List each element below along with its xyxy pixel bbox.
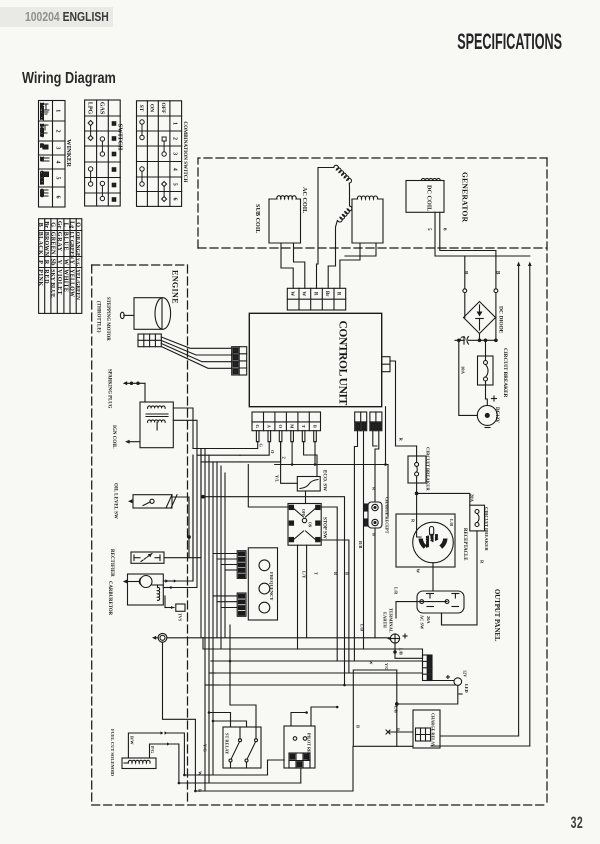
svg-text:GENERATOR: GENERATOR [461, 172, 470, 223]
frequency box side connector pads [237, 551, 246, 617]
dc receptacle [458, 339, 498, 428]
generator dashed bottom [198, 247, 547, 249]
svg-text:B: B [495, 271, 500, 275]
svg-text:R: R [399, 438, 404, 442]
svg-text:Y/G: Y/G [75, 258, 80, 267]
svg-text:Y: Y [69, 260, 76, 265]
stepping motor body [120, 298, 170, 330]
svg-text:B: B [372, 533, 377, 536]
svg-text:Y/G: Y/G [203, 744, 208, 752]
svg-text:Y/G: Y/G [384, 663, 389, 671]
svg-text:CIRCUIT BREAKER: CIRCUIT BREAKER [426, 447, 431, 491]
svg-text:LED: LED [464, 684, 469, 693]
svg-text:2: 2 [171, 137, 177, 140]
svg-text:2: 2 [282, 457, 287, 459]
engine dashed box left [91, 265, 93, 805]
svg-text:3: 3 [55, 147, 61, 150]
svg-text:B/W: B/W [130, 736, 135, 745]
page number 32 [564, 813, 583, 833]
sub coil leads [281, 243, 293, 288]
connector pins below strip [256, 431, 316, 442]
svg-text:B: B [312, 425, 317, 428]
svg-text:12V: 12V [463, 670, 468, 677]
svg-text:G: G [50, 222, 57, 227]
relay wires [209, 713, 231, 728]
svg-text:GRAY: GRAY [56, 232, 62, 252]
outer dashed right border [546, 158, 548, 805]
svg-text:CHARGE RECEPT: CHARGE RECEPT [385, 497, 390, 534]
svg-text:R: R [411, 519, 416, 523]
svg-text:O: O [270, 450, 275, 454]
capacitor C [455, 318, 497, 345]
svg-text:BATTERY: BATTERY [40, 103, 44, 120]
carburetor output wires [163, 455, 197, 589]
table remote-connector grid [39, 101, 66, 208]
carburetor with fuel cut solenoid [123, 574, 164, 605]
wire color legend table [39, 219, 82, 314]
svg-text:5: 5 [426, 228, 431, 231]
generator dashed box [198, 158, 547, 248]
dc circuit breaker 10A [478, 339, 494, 385]
svg-text:W: W [301, 291, 306, 296]
PLACE_CONTROL [364, 302, 530, 749]
svg-text:OIL LEVEL SW: OIL LEVEL SW [113, 483, 118, 519]
left connector of control unit [232, 347, 247, 375]
svg-text:C: C [459, 336, 467, 341]
svg-text:1: 1 [171, 122, 177, 125]
svg-text:ON: ON [149, 104, 155, 112]
circuit breaker 20A [442, 505, 485, 625]
svg-text:L/B: L/B [360, 624, 365, 631]
svg-text:R: R [43, 260, 50, 265]
svg-text:L: L [62, 223, 69, 227]
ignition coil output wires [173, 408, 193, 449]
svg-text:STEPPING MOTOR: STEPPING MOTOR [105, 297, 110, 341]
svg-text:Y/L: Y/L [275, 475, 280, 482]
svg-text:IGN COIL: IGN COIL [111, 425, 116, 449]
svg-text:TT-30R: TT-30R [426, 536, 430, 548]
svg-text:B: B [345, 572, 350, 575]
svg-text:R: R [336, 292, 341, 296]
svg-text:RECEPTACLE: RECEPTACLE [462, 528, 467, 560]
dc coil lead wires to rectifier [435, 212, 530, 256]
svg-text:3: 3 [171, 152, 177, 155]
svg-text:PILOT RELAY: PILOT RELAY [307, 733, 312, 761]
svg-text:4: 4 [171, 168, 177, 171]
junction box mid right [353, 670, 412, 746]
PLACE_GENERATOR [120, 298, 353, 791]
pilot relay [284, 726, 315, 768]
svg-text:ST: ST [138, 105, 144, 112]
svg-text:BLUE: BLUE [62, 232, 68, 252]
svg-text:Br: Br [324, 291, 329, 297]
svg-text:LPG: LPG [87, 102, 93, 115]
svg-text:R: R [372, 487, 377, 491]
main rocker switch [398, 591, 464, 625]
bottom connector labels [255, 424, 317, 429]
wires from bottom connector pins [240, 407, 388, 661]
ac coil main winding [318, 165, 383, 243]
rectifier [131, 552, 164, 563]
table C continuity symbols [140, 120, 167, 202]
svg-text:DC DIODE: DC DIODE [498, 306, 504, 334]
svg-text:R/B: R/B [358, 541, 363, 548]
svg-text:P: P [37, 260, 44, 264]
svg-text:RED: RED [43, 269, 49, 284]
svg-text:6: 6 [171, 198, 177, 201]
svg-text:Sb: Sb [50, 259, 57, 266]
svg-text:DC COIL: DC COIL [426, 185, 433, 211]
ignition coil [125, 402, 173, 448]
svg-text:R: R [463, 271, 468, 275]
svg-text:CHARGE RELAY: CHARGE RELAY [431, 713, 436, 747]
svg-text:A: A [267, 425, 272, 429]
svg-text:O: O [278, 425, 283, 429]
svg-text:B: B [396, 728, 401, 731]
svg-text:CARBURETOR: CARBURETOR [107, 581, 112, 616]
svg-text:B: B [333, 572, 338, 575]
svg-text:1: 1 [55, 109, 61, 112]
svg-text:20A: 20A [426, 616, 431, 624]
bottom engine bus wires [268, 760, 285, 775]
svg-text:V: V [56, 260, 63, 265]
dc coil winding [406, 178, 444, 212]
svg-text:20A: 20A [470, 494, 475, 503]
right connector of control unit [382, 357, 390, 372]
svg-text:BLACK: BLACK [37, 232, 43, 255]
svg-text:M: M [289, 424, 294, 429]
svg-text:AC COIL: AC COIL [301, 187, 308, 213]
header gray bar [0, 7, 113, 27]
PLACE_ENGINE [193, 288, 455, 791]
left bus wires going down [193, 449, 240, 792]
ac coil leads to connector [317, 243, 319, 289]
engine dashed box top [92, 264, 188, 266]
control unit box [249, 313, 381, 406]
frequency selector box [248, 548, 277, 620]
solenoid wires [128, 731, 300, 783]
svg-text:GAS: GAS [98, 102, 104, 115]
spark plug [123, 381, 145, 402]
svg-text:OFF: OFF [160, 103, 166, 115]
svg-text:YEL/GREEN: YEL/GREEN [74, 269, 80, 300]
stepping motor connector [138, 334, 161, 347]
svg-text:TVS: TVS [178, 613, 183, 622]
svg-text:DC12V: DC12V [494, 407, 499, 423]
svg-text:SWITCH: SWITCH [117, 124, 124, 151]
bottom connector strip of control unit [252, 412, 321, 431]
svg-text:W: W [289, 291, 294, 296]
charge receptacle 12v [364, 502, 382, 638]
table combination-switch grid [137, 101, 182, 207]
stepping motor wires to control unit [161, 337, 231, 348]
svg-text:L/B: L/B [394, 706, 399, 713]
svg-text:EARTH: EARTH [383, 612, 388, 628]
outer dashed bottom border [92, 804, 547, 806]
svg-text:L/B: L/B [449, 519, 454, 526]
svg-text:ECO. SW: ECO. SW [322, 470, 327, 491]
svg-text:T: T [301, 425, 306, 428]
svg-text:6: 6 [442, 228, 447, 231]
svg-text:ENGINE: ENGINE [171, 270, 180, 304]
subtitle Wiring Diagram [22, 70, 116, 88]
svg-text:30A: 30A [435, 535, 439, 541]
svg-text:G: G [255, 425, 260, 429]
svg-text:STOP SW: STOP SW [322, 517, 327, 539]
svg-text:T: T [314, 572, 319, 575]
svg-text:W: W [62, 259, 69, 266]
svg-text:FREQUENCY: FREQUENCY [269, 572, 274, 601]
sub coil winding [269, 196, 301, 243]
top connector strip of control unit [287, 288, 345, 310]
tvs unit [165, 596, 185, 611]
table B continuity symbols [88, 121, 116, 202]
table fuel-switch grid [85, 100, 121, 206]
PLACE_RIGHT [40, 103, 167, 202]
svg-text:GREEN: GREEN [50, 232, 56, 255]
svg-text:L/B: L/B [399, 648, 404, 655]
svg-text:OFF: OFF [301, 509, 305, 517]
svg-text:2: 2 [55, 130, 61, 133]
svg-text:TERMINAL: TERMINAL [389, 608, 394, 633]
eco switch [281, 442, 321, 504]
svg-text:L/Y: L/Y [302, 571, 307, 579]
svg-text:RECTIFIER: RECTIFIER [109, 549, 114, 577]
charge relay right [386, 710, 530, 748]
circuit breaker left [408, 446, 426, 495]
ac output feed wires with arrowheads [518, 266, 520, 736]
svg-text:G: G [259, 444, 264, 448]
svg-text:Br: Br [43, 221, 50, 228]
starter relay [223, 727, 261, 768]
top connector labels [289, 291, 341, 297]
horizontal bundle wires [203, 638, 455, 685]
svg-text:AC SW: AC SW [420, 615, 425, 630]
svg-text:B: B [356, 725, 361, 728]
svg-text:CIRCUIT BREAKER: CIRCUIT BREAKER [502, 348, 508, 398]
svg-text:LT GREEN: LT GREEN [69, 232, 75, 259]
engine dashed box right [187, 265, 189, 805]
svg-text:(THROTTLE): (THROTTLE) [96, 301, 101, 333]
svg-text:5: 5 [55, 177, 61, 180]
svg-text:Gr: Gr [56, 221, 63, 229]
title SPECIFICATIONS [394, 29, 562, 55]
oil switch wire [172, 497, 189, 537]
pilot lamp connector [423, 655, 433, 681]
junction dots [291, 463, 294, 466]
svg-text:O: O [74, 222, 81, 227]
svg-text:CONTROL UNIT: CONTROL UNIT [337, 321, 349, 406]
svg-text:VIOLET: VIOLET [56, 269, 62, 295]
connector bullets on dc leads [463, 289, 467, 293]
svg-text:CIRCUIT BREAKER: CIRCUIT BREAKER [484, 507, 489, 551]
svg-text:WHITE: WHITE [62, 269, 68, 292]
stop switch [288, 504, 321, 546]
svg-text:6: 6 [55, 196, 61, 199]
svg-text:SPARKING PLUG: SPARKING PLUG [107, 369, 112, 409]
svg-text:W: W [369, 660, 374, 665]
two aux connectors below control unit [355, 412, 367, 431]
svg-text:B: B [198, 789, 203, 792]
twist lock receptacle [396, 514, 455, 591]
svg-text:W: W [198, 771, 203, 776]
svg-text:COMBINATION SWITCH: COMBINATION SWITCH [182, 121, 188, 182]
svg-text:ORANGE: ORANGE [74, 232, 80, 257]
svg-text:5: 5 [171, 183, 177, 186]
svg-text:OUTPUT PANEL: OUTPUT PANEL [493, 589, 500, 642]
svg-text:P/G: P/G [150, 746, 155, 754]
earth terminal [387, 634, 423, 658]
svg-text:SKY BLUE: SKY BLUE [50, 269, 56, 298]
svg-text:YELLOW: YELLOW [69, 269, 75, 297]
svg-text:W: W [416, 569, 421, 574]
starter motor [152, 633, 167, 642]
svg-text:BROWN: BROWN [43, 232, 49, 257]
svg-text:125V: 125V [430, 534, 434, 542]
fuel cut solenoid [122, 758, 156, 769]
table A cell symbols [41, 104, 49, 196]
svg-text:B: B [37, 223, 44, 227]
svg-text:R: R [480, 560, 485, 564]
svg-text:SUB COIL: SUB COIL [254, 204, 261, 233]
svg-text:R: R [312, 292, 317, 296]
svg-text:FUEL CUT SOLENOID: FUEL CUT SOLENOID [110, 729, 115, 777]
pilot lamp [396, 676, 463, 706]
svg-text:PINK: PINK [37, 269, 43, 286]
dc diode bridge [464, 302, 496, 334]
svg-text:ON: ON [308, 522, 312, 528]
table A cell tiny labels [40, 103, 44, 197]
svg-text:4: 4 [55, 161, 61, 164]
wires below stop switch and freq box [229, 625, 231, 661]
oil level switch [128, 495, 177, 508]
stop switch wires [248, 465, 289, 508]
svg-text:WINKER: WINKER [65, 139, 72, 167]
svg-text:ST RELAY: ST RELAY [225, 733, 230, 755]
svg-text:10A: 10A [461, 366, 466, 375]
svg-text:L/R: L/R [394, 587, 399, 595]
